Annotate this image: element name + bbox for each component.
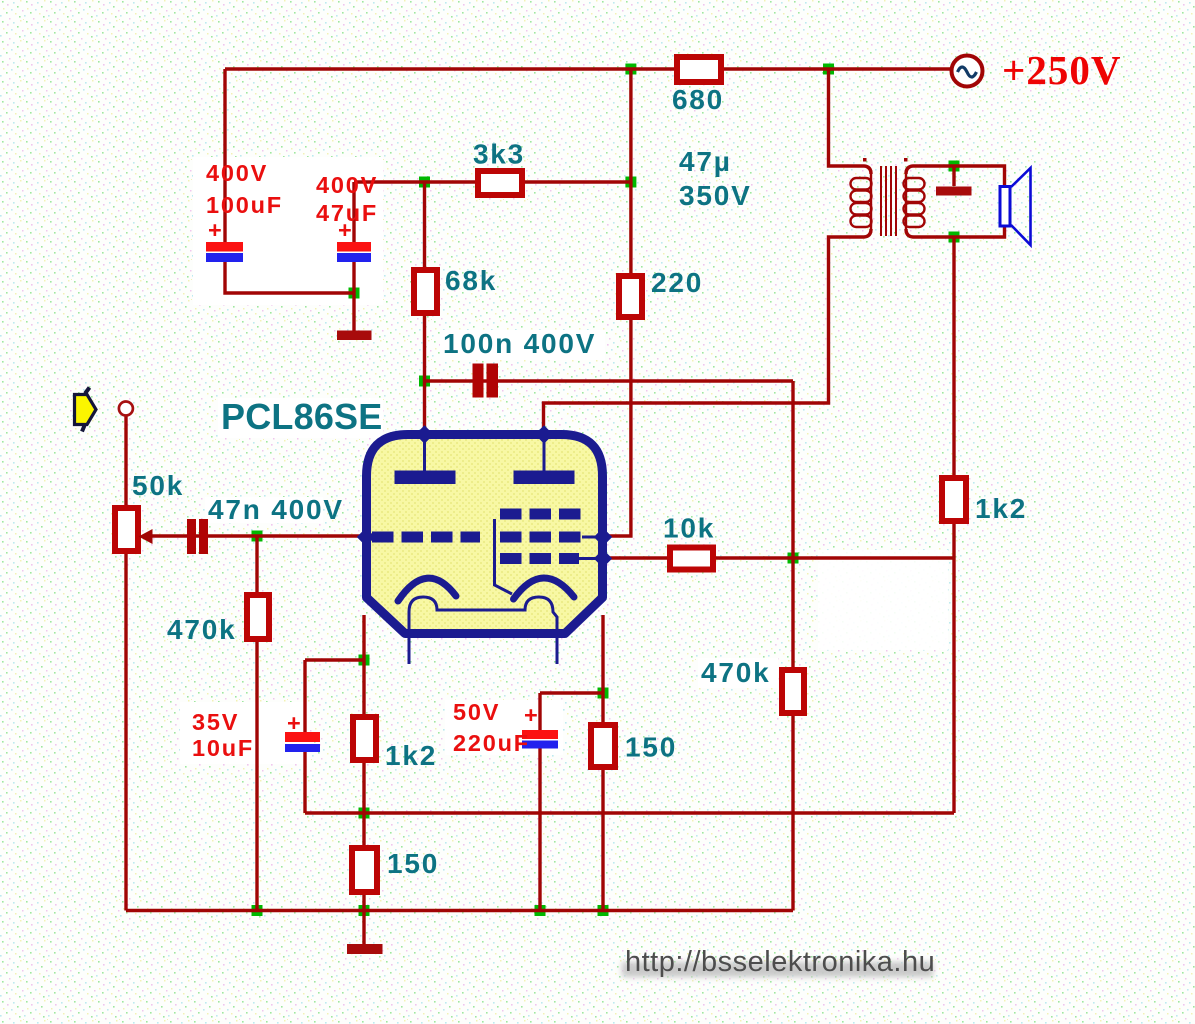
wire pentode grid drop [791,381,794,672]
node junction rail 220uF [535,905,546,916]
wire 150 left bottom to ground [362,893,365,944]
potentiometer 50k body [115,508,138,551]
resistor 220 [619,276,642,317]
node junction 10k / 470k [788,553,799,564]
input terminal circle [119,402,133,416]
pentode g2 link [582,536,599,539]
node junction 68k / 100n [419,376,430,387]
ground below 47uF [337,331,372,341]
node junction triode cathode [359,655,370,666]
wire 10uF bottom [303,752,306,813]
wire 100uF bottom to junction [225,261,354,293]
triode cathode [398,578,456,601]
node junction secondary top [949,161,960,172]
wire 220uF bottom [538,748,541,911]
wire pot bottom [124,551,127,911]
wire 10k row [602,556,954,559]
wire 100n row [425,379,794,382]
watermark shadow [622,962,933,977]
svg-text:50V: 50V [453,699,500,725]
speaker LS1 [1000,168,1031,245]
svg-text:3k3: 3k3 [473,139,525,170]
pentode anode lead [543,438,546,471]
pin triode grid [357,528,375,546]
white label backgrounds [193,157,383,305]
resistor 3k3 [478,171,522,195]
wire ground rail [126,909,793,912]
capacitor 100n [473,364,499,398]
capacitor 47uF electrolytic [337,242,371,262]
pentode g3 dashes [500,509,585,520]
capacitor 100uF electrolytic [206,242,243,262]
svg-text:150: 150 [387,848,439,879]
wire 47uF bottom to ground [352,261,355,331]
wire 220 top [629,69,632,278]
resistor 10k [670,548,713,570]
node junction 3k3 left / 68k [419,177,430,188]
wire 220uF top [538,693,541,730]
pentode g3 tie [495,519,513,594]
wire top rail B+ [225,67,953,70]
svg-text:100n 400V: 100n 400V [443,328,596,359]
capacitor 10uF electrolytic [285,732,320,752]
wire feedback 1k2 top [952,237,955,480]
pin triode anode [415,425,433,443]
wire 100uF top [223,69,226,243]
wire triode grid row [146,534,362,537]
svg-text:http://bsselektronika.hu: http://bsselektronika.hu [625,946,935,978]
wire primary top [829,69,872,174]
wire secondary top to speaker [906,166,1005,187]
svg-text:470k: 470k [167,614,237,645]
wire 10uF branch [305,658,364,661]
triode anode plate [395,471,456,485]
svg-text:150: 150 [625,732,677,763]
wire 150 right bottom [601,768,604,911]
svg-text:+: + [338,217,354,243]
pentode g1 dashes [500,553,579,564]
wire secondary bottom to speaker [906,225,1005,237]
pin pentode screen [594,528,612,546]
svg-text:220: 220 [651,267,703,298]
wire 47uF top [352,182,355,243]
svg-text:1k2: 1k2 [975,493,1027,524]
svg-text:50k: 50k [132,470,184,501]
capacitor 47n [187,519,208,554]
pentode anode plate [514,471,575,485]
resistor 470k right [782,670,804,713]
resistor 680 [677,57,721,82]
wire 10uF top [303,660,306,732]
wire 470k left bottom [255,637,258,911]
svg-text:400V: 400V [316,172,378,198]
triode grid dashes [372,532,480,543]
pin pentode anode [535,425,553,443]
svg-text:+: + [287,710,303,736]
heater filament [409,597,557,664]
svg-text:47n 400V: 47n 400V [208,494,344,525]
svg-text:47µ: 47µ [679,146,732,177]
node junction pentode cathode [598,688,609,699]
wire 68k top [423,182,426,272]
wire cathode return row [305,811,954,814]
wire 3k3 row [354,180,631,183]
transformer T1 [851,158,925,236]
svg-text:+250V: +250V [1002,47,1121,93]
wire pentode cathode drop [601,615,604,727]
resistor 470k left [247,595,269,639]
resistor 1k2 left [353,717,376,760]
svg-text:220uF: 220uF [453,730,530,756]
wire pot top [124,414,127,510]
node junction caps ground [349,288,360,299]
node junction 3k3 right / 220 [625,177,636,188]
wire feedback 1k2 bottom [952,519,955,813]
node junction rail 470k [252,905,263,916]
capacitor 220uF electrolytic [522,730,558,749]
pentode cathode [514,578,575,599]
svg-text:470k: 470k [701,657,771,688]
wire 68k bottom to triode anode [423,311,426,428]
wire 220 bottom to screen [602,315,631,536]
svg-text:+: + [524,702,540,728]
svg-text:68k: 68k [445,265,497,296]
svg-text:1k2: 1k2 [385,740,437,771]
resistor 150 left [352,848,377,892]
ground bottom rail [347,944,383,954]
wire triode cathode drop [362,615,365,719]
wire 470k right bottom [791,711,794,911]
node junction triode grid [252,531,263,542]
node junction secondary bottom [949,232,960,243]
pentode g1 link [579,557,599,560]
resistor 68k [414,270,437,313]
resistor 1k2 right [942,478,966,521]
node junction rail 150 [359,905,370,916]
svg-text:350V: 350V [679,180,752,211]
input terminal arrow [75,388,97,432]
svg-text:PCL86SE: PCL86SE [221,396,382,437]
resistor 150 right [591,725,615,767]
wire primary bottom to pentode anode [544,229,872,428]
wire 1k2 left bottom [362,761,365,850]
svg-text:10k: 10k [663,513,715,544]
AC supply terminal [952,56,983,87]
tube PCL86 envelope [357,425,612,664]
potentiometer 50k wiper arrow [139,529,153,544]
pin pentode grid [594,549,612,567]
svg-text:100uF: 100uF [206,192,283,218]
svg-text:35V: 35V [192,709,239,735]
svg-text:+: + [208,217,224,243]
wire 220uF branch [540,691,603,694]
triode anode lead [423,438,426,471]
svg-text:680: 680 [672,84,724,115]
node junction top rail / transformer [823,64,834,75]
wire 470k left top [255,536,258,597]
wire secondary ground stub [952,166,955,186]
node junction 1k2 bottom [359,808,370,819]
node junction top rail / 220 [625,64,636,75]
svg-text:10uF: 10uF [192,735,254,761]
node junction rail pentode [598,905,609,916]
ground at transformer secondary [936,187,972,196]
svg-text:400V: 400V [206,160,268,186]
pentode g2 dashes [500,532,582,543]
